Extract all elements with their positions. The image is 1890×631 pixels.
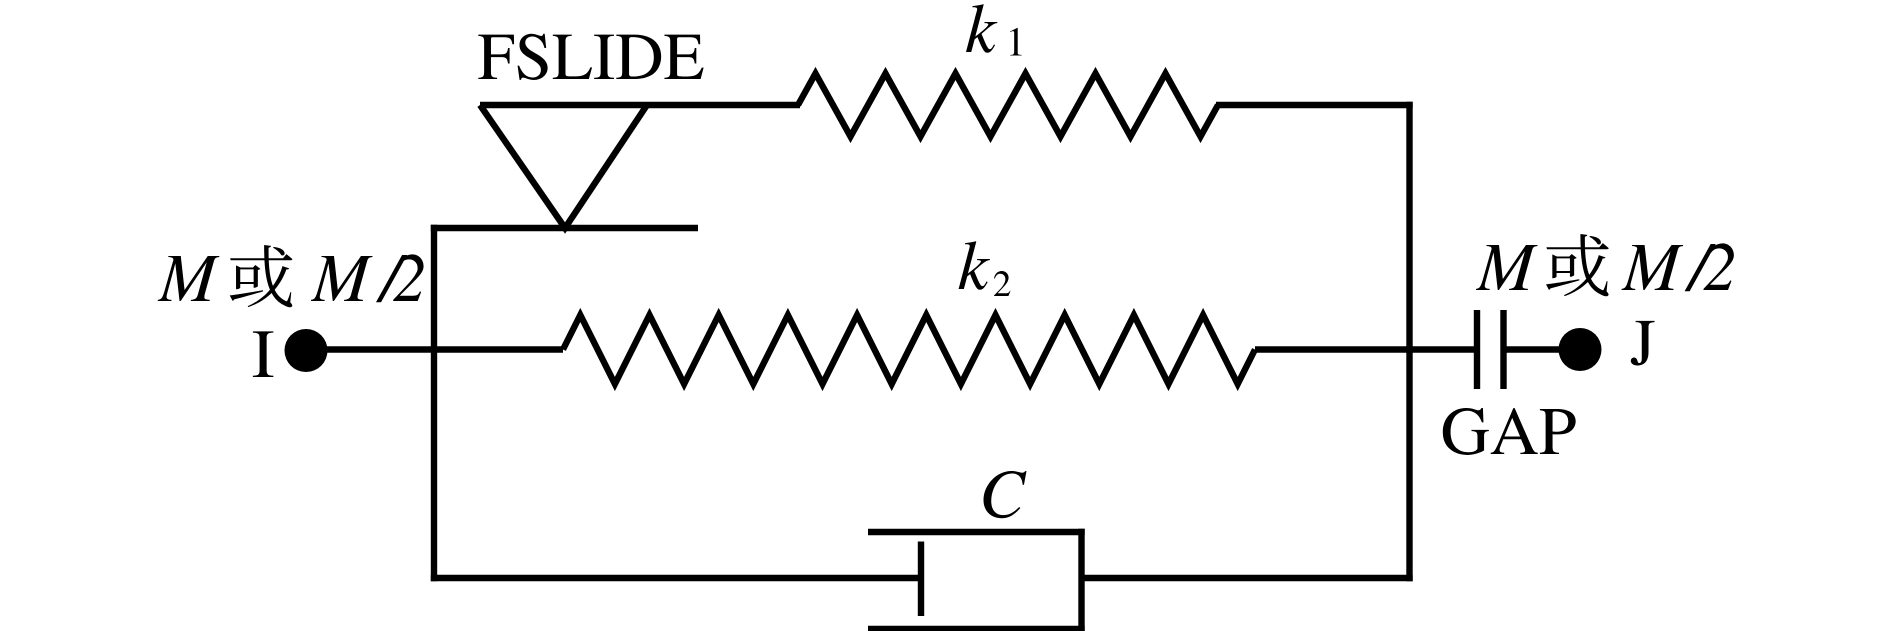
label 或 (right) xyxy=(1546,234,1609,296)
damper C piston rod xyxy=(918,542,924,617)
wire bottom-right (damper to right bus) xyxy=(1082,575,1413,581)
damper C cylinder right wall xyxy=(1078,529,1084,631)
label 或 (left) xyxy=(230,245,293,307)
label C (damper) xyxy=(984,471,1027,518)
label M/2 (right) xyxy=(1622,243,1734,291)
wire k2 to GAP xyxy=(1255,346,1474,352)
label k1 k xyxy=(966,4,997,53)
wire top-left (FSLIDE/k1 branch from triangle to spring) xyxy=(480,102,800,108)
label M (right mass) xyxy=(1476,245,1537,290)
wire GAP to node J xyxy=(1504,346,1566,352)
wire top-right (k1 to right bus) xyxy=(1216,102,1413,108)
label k2 subscript 2 xyxy=(994,271,1010,296)
label M (left mass) xyxy=(158,256,219,301)
damper C cylinder bottom wall xyxy=(868,626,1085,631)
node I dot xyxy=(285,329,328,372)
label node I xyxy=(253,331,273,377)
capacitor GAP left plate xyxy=(1474,310,1480,389)
node J dot xyxy=(1559,328,1602,371)
wire bottom-left (left bus to damper piston) xyxy=(431,575,921,581)
label M/2 (left) xyxy=(311,254,424,302)
label k2 k xyxy=(959,241,990,290)
FSLIDE base plate wire xyxy=(431,225,698,231)
label k1 subscript 1 xyxy=(1010,28,1022,56)
label GAP xyxy=(1443,408,1576,455)
label node J xyxy=(1631,321,1655,366)
damper C cylinder top wall xyxy=(868,529,1085,535)
capacitor GAP right plate xyxy=(1500,310,1506,389)
wire node I to k2 xyxy=(306,346,563,352)
label FSLIDE xyxy=(478,34,703,80)
resistor (spring) k1 xyxy=(798,74,1218,137)
resistor (spring) k2 xyxy=(563,315,1255,384)
wire left bus xyxy=(431,225,437,581)
friction slider FSLIDE triangle xyxy=(480,105,647,228)
wire right bus xyxy=(1406,102,1412,581)
